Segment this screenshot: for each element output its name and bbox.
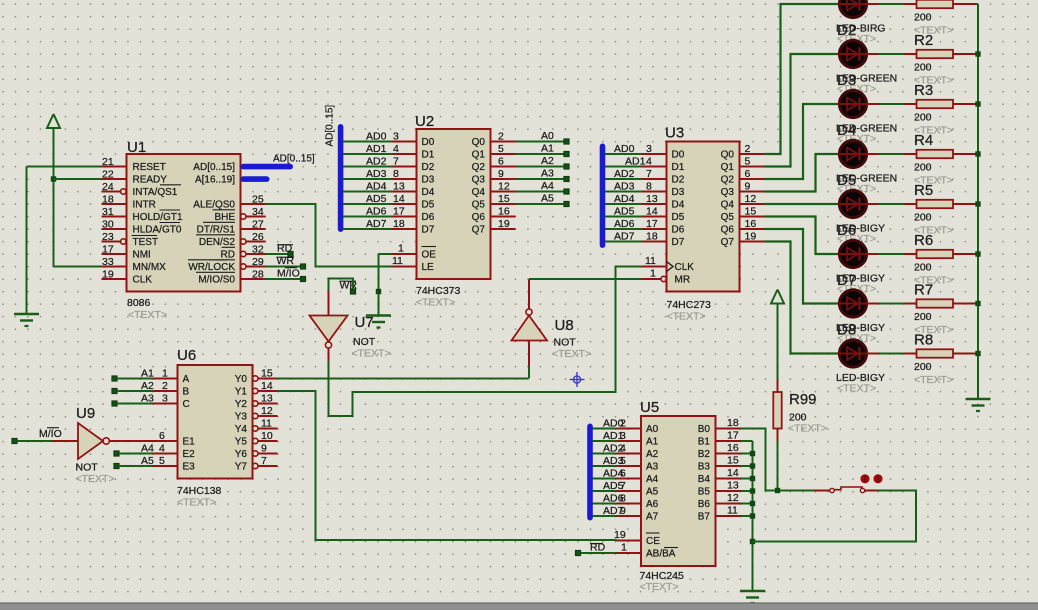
svg-text:19: 19 xyxy=(498,218,510,230)
svg-text:15: 15 xyxy=(261,368,273,380)
svg-text:AD3: AD3 xyxy=(366,168,387,180)
svg-text:74HC373: 74HC373 xyxy=(416,285,461,297)
svg-text:29: 29 xyxy=(252,256,264,268)
svg-text:4: 4 xyxy=(393,143,399,155)
wire resistor to rail row 1 xyxy=(976,3,978,5)
svg-text:19: 19 xyxy=(614,529,626,541)
svg-text:E1: E1 xyxy=(183,437,196,448)
svg-text:2: 2 xyxy=(162,380,168,392)
junction READY xyxy=(51,176,56,181)
wire LED to resistor row 1 xyxy=(879,3,904,5)
svg-text:D5: D5 xyxy=(672,212,685,223)
svg-text:R6: R6 xyxy=(914,232,933,249)
svg-text:AD7: AD7 xyxy=(603,505,624,517)
bottom window edge xyxy=(0,603,1038,610)
wire READY pin 22 xyxy=(54,178,102,180)
IC U1 8086 xyxy=(102,139,266,321)
wire ALE to LE xyxy=(266,204,392,267)
svg-text:9: 9 xyxy=(261,443,267,455)
LED D4 LED-GREEN xyxy=(836,90,897,145)
svg-text:D4: D4 xyxy=(672,200,685,211)
svg-text:Q2: Q2 xyxy=(472,162,486,173)
svg-text:U8: U8 xyxy=(555,317,574,334)
svg-text:U3: U3 xyxy=(665,125,684,142)
svg-text:B5: B5 xyxy=(698,487,711,498)
svg-text:R8: R8 xyxy=(914,332,933,349)
svg-text:A4: A4 xyxy=(646,474,659,485)
svg-text:17: 17 xyxy=(727,430,739,442)
svg-text:1: 1 xyxy=(162,368,168,380)
svg-text:A0: A0 xyxy=(646,424,659,435)
svg-text:16: 16 xyxy=(745,218,757,230)
svg-text:11: 11 xyxy=(727,505,738,517)
svg-text:A5: A5 xyxy=(541,193,554,205)
svg-text:4: 4 xyxy=(159,443,165,455)
svg-text:12: 12 xyxy=(498,181,510,193)
svg-text:A3: A3 xyxy=(141,393,154,405)
resistor R2 200 xyxy=(904,32,976,87)
svg-text:11: 11 xyxy=(645,255,656,267)
svg-text:B2: B2 xyxy=(698,449,711,460)
svg-text:<TEXT>: <TEXT> xyxy=(128,309,167,321)
svg-text:Y6: Y6 xyxy=(235,449,248,460)
svg-text:AD4: AD4 xyxy=(603,468,624,480)
svg-text:Y7: Y7 xyxy=(235,462,248,473)
svg-text:Y5: Y5 xyxy=(235,437,248,448)
ground at U2 OE xyxy=(366,316,391,328)
svg-text:17: 17 xyxy=(102,244,114,256)
wire RD net xyxy=(266,253,289,255)
NOT gate U7 xyxy=(310,291,391,362)
svg-text:M/IO: M/IO xyxy=(39,428,62,440)
svg-text:17: 17 xyxy=(393,206,405,218)
svg-text:AD3: AD3 xyxy=(603,455,624,467)
wires Q0-Q5 to terminals xyxy=(516,142,564,205)
svg-text:AB/BA: AB/BA xyxy=(646,549,676,560)
resistor R5 200 xyxy=(904,182,976,237)
svg-text:D2: D2 xyxy=(422,162,435,173)
svg-text:U7: U7 xyxy=(355,314,374,331)
svg-text:11: 11 xyxy=(261,418,272,430)
wire Y0 to U8 xyxy=(278,378,529,380)
svg-text:13: 13 xyxy=(393,181,405,193)
wire LED to resistor row 7 xyxy=(879,303,904,305)
svg-text:16: 16 xyxy=(727,442,739,454)
svg-text:AD6: AD6 xyxy=(366,206,387,218)
svg-text:C: C xyxy=(183,399,190,410)
svg-text:15: 15 xyxy=(745,206,757,218)
wire right rail xyxy=(977,4,979,399)
svg-text:B: B xyxy=(183,387,190,398)
LED D5 LED-GREEN xyxy=(836,140,897,195)
svg-text:<TEXT>: <TEXT> xyxy=(788,423,827,435)
svg-text:Q1: Q1 xyxy=(472,150,486,161)
svg-text:1: 1 xyxy=(650,268,656,280)
svg-text:M/IO/S0: M/IO/S0 xyxy=(198,275,235,286)
svg-text:11: 11 xyxy=(392,255,403,267)
svg-text:Q0: Q0 xyxy=(721,150,735,161)
svg-text:WR/LOCK: WR/LOCK xyxy=(188,262,235,273)
svg-text:Y2: Y2 xyxy=(235,399,248,410)
svg-text:MN/MX: MN/MX xyxy=(133,262,167,273)
svg-text:14: 14 xyxy=(261,380,273,392)
svg-text:AD5: AD5 xyxy=(366,193,387,205)
wire Q0 to LED row 1 xyxy=(765,4,838,154)
svg-text:3: 3 xyxy=(162,393,168,405)
svg-text:LE: LE xyxy=(422,262,435,273)
svg-text:D3: D3 xyxy=(672,187,685,198)
svg-text:<TEXT>: <TEXT> xyxy=(76,473,115,485)
svg-text:B1: B1 xyxy=(698,437,711,448)
svg-text:Q5: Q5 xyxy=(472,200,486,211)
svg-text:D6: D6 xyxy=(672,225,685,236)
LED D3 LED-GREEN xyxy=(836,40,897,95)
svg-text:INTR: INTR xyxy=(133,200,156,211)
wire Q6 to LED row 7 xyxy=(765,229,838,304)
bus AD[0..15] from U1 xyxy=(241,154,315,170)
svg-text:18: 18 xyxy=(727,417,739,429)
svg-text:Y4: Y4 xyxy=(235,424,248,435)
svg-text:21: 21 xyxy=(102,156,114,168)
terminal RD at U5 xyxy=(575,542,605,556)
wire LED to resistor row 3 xyxy=(879,103,904,105)
svg-text:25: 25 xyxy=(252,194,264,206)
svg-text:OE: OE xyxy=(422,250,437,261)
svg-text:U1: U1 xyxy=(127,139,146,156)
wires bus to U5 A pins xyxy=(593,429,617,517)
svg-text:2: 2 xyxy=(498,131,504,143)
junction OE ground wire xyxy=(376,289,381,294)
svg-text:U5: U5 xyxy=(640,399,659,416)
svg-text:6: 6 xyxy=(745,168,751,180)
svg-text:A4: A4 xyxy=(141,443,154,455)
svg-text:B3: B3 xyxy=(698,462,711,473)
svg-text:12: 12 xyxy=(745,193,757,205)
wire junction to switch xyxy=(780,490,814,492)
svg-text:<TEXT>: <TEXT> xyxy=(837,383,876,395)
wires AD0-AD7 bus to U2 xyxy=(343,142,392,230)
resistor R3 200 xyxy=(904,82,976,137)
terminal M/IO xyxy=(277,268,306,282)
svg-text:R5: R5 xyxy=(914,182,933,199)
svg-text:33: 33 xyxy=(102,256,114,268)
svg-text:Y0: Y0 xyxy=(235,374,248,385)
svg-text:AD[0..15]: AD[0..15] xyxy=(193,162,235,173)
svg-text:8: 8 xyxy=(646,181,652,193)
svg-text:R7: R7 xyxy=(914,282,933,299)
junctions on right rail xyxy=(975,51,980,356)
IC U2 74HC373 xyxy=(392,113,516,309)
svg-text:R4: R4 xyxy=(914,132,933,149)
svg-text:13: 13 xyxy=(261,393,273,405)
ground right rail xyxy=(966,399,991,411)
wire Q5 to LED row 6 xyxy=(765,217,838,255)
wire M/IO net xyxy=(266,278,301,280)
svg-text:3: 3 xyxy=(646,143,652,155)
svg-text:15: 15 xyxy=(727,455,739,467)
svg-text:Q2: Q2 xyxy=(721,175,735,186)
svg-text:Q1: Q1 xyxy=(721,162,735,173)
svg-text:AD2: AD2 xyxy=(603,443,624,455)
svg-text:14: 14 xyxy=(727,467,739,479)
svg-text:<TEXT>: <TEXT> xyxy=(352,348,391,360)
svg-text:15: 15 xyxy=(498,193,510,205)
svg-text:ALE/QS0: ALE/QS0 xyxy=(193,200,235,211)
junction switch return xyxy=(750,539,755,544)
svg-text:A5: A5 xyxy=(646,487,659,498)
svg-text:D6: D6 xyxy=(422,212,435,223)
svg-text:READY: READY xyxy=(133,175,168,186)
svg-text:200: 200 xyxy=(914,62,932,74)
svg-text:19: 19 xyxy=(102,269,114,281)
svg-text:18: 18 xyxy=(393,218,405,230)
svg-text:A4: A4 xyxy=(541,180,554,192)
svg-text:B4: B4 xyxy=(698,474,711,485)
wire Q7 to LED row 8 xyxy=(765,242,838,354)
LED D6 LED-BIGY xyxy=(836,190,885,245)
svg-text:Q7: Q7 xyxy=(472,225,486,236)
svg-text:AD4: AD4 xyxy=(614,193,635,205)
svg-text:U6: U6 xyxy=(177,347,196,364)
svg-text:14: 14 xyxy=(646,206,658,218)
svg-text:Q5: Q5 xyxy=(721,212,735,223)
svg-text:A1: A1 xyxy=(541,143,554,155)
svg-text:D5: D5 xyxy=(422,200,435,211)
svg-text:24: 24 xyxy=(102,181,114,193)
LED D7 LED-BIGY xyxy=(836,240,885,295)
svg-text:5: 5 xyxy=(159,455,165,467)
svg-text:74HC138: 74HC138 xyxy=(177,485,222,497)
svg-text:AD6: AD6 xyxy=(614,218,635,230)
svg-text:6: 6 xyxy=(498,156,504,168)
svg-text:7: 7 xyxy=(646,168,652,180)
svg-text:NOT: NOT xyxy=(554,337,577,349)
resistor R8 200 xyxy=(904,332,976,387)
svg-text:34: 34 xyxy=(252,206,264,218)
svg-text:A2: A2 xyxy=(541,155,554,167)
svg-text:AD0: AD0 xyxy=(603,418,624,430)
svg-text:A7: A7 xyxy=(646,512,659,523)
svg-text:HOLD/GT1: HOLD/GT1 xyxy=(133,212,183,223)
svg-text:D1: D1 xyxy=(422,150,435,161)
svg-text:A3: A3 xyxy=(541,168,554,180)
svg-text:AD0: AD0 xyxy=(614,143,635,155)
resistor R7 200 xyxy=(904,282,976,337)
svg-text:D0: D0 xyxy=(422,137,435,148)
svg-text:74HC273: 74HC273 xyxy=(667,299,712,311)
svg-text:E3: E3 xyxy=(183,462,196,473)
svg-text:CE: CE xyxy=(646,536,660,547)
bus A[16..19] from U1 xyxy=(241,176,270,182)
svg-text:A2: A2 xyxy=(646,449,659,460)
wire resistor to rail row 7 xyxy=(976,303,978,305)
svg-text:AD6: AD6 xyxy=(603,493,624,505)
svg-text:30: 30 xyxy=(102,219,114,231)
resistor R4 200 xyxy=(904,132,976,187)
svg-text:AD2: AD2 xyxy=(614,168,635,180)
wire B1 down rail xyxy=(741,441,753,591)
wire resistor to rail row 2 xyxy=(976,53,978,55)
wire RD to AB/BA xyxy=(581,552,617,554)
svg-text:3: 3 xyxy=(393,131,399,143)
svg-text:RESET: RESET xyxy=(133,162,166,173)
svg-text:R99: R99 xyxy=(789,391,817,408)
ground below U5 xyxy=(740,591,765,603)
svg-text:200: 200 xyxy=(914,162,932,174)
wire Y1 to U5 CE xyxy=(278,391,617,540)
wires B2-B7 to rail xyxy=(741,451,756,519)
bus AD[0..7] vertical at U5 xyxy=(587,424,593,521)
wire resistor to rail row 4 xyxy=(976,153,978,155)
svg-text:23: 23 xyxy=(102,231,114,243)
NOT gate U9 xyxy=(53,405,153,485)
svg-text:A1: A1 xyxy=(141,368,154,380)
power arrow VCC left xyxy=(47,114,60,267)
IC U3 74HC273 xyxy=(642,125,765,323)
svg-text:200: 200 xyxy=(914,212,932,224)
svg-text:AD1: AD1 xyxy=(366,143,387,155)
svg-text:7: 7 xyxy=(393,156,399,168)
svg-text:<TEXT>: <TEXT> xyxy=(416,297,455,309)
svg-text:D3: D3 xyxy=(422,175,435,186)
NOT gate U8 xyxy=(512,279,592,366)
svg-text:AD5: AD5 xyxy=(614,206,635,218)
wire LED to resistor row 6 xyxy=(879,253,904,255)
svg-text:AD5: AD5 xyxy=(603,480,624,492)
wire resistor to rail row 8 xyxy=(976,353,978,355)
wire VCC to MN/MX pin 33 xyxy=(54,266,102,268)
svg-text:Q4: Q4 xyxy=(721,200,735,211)
svg-text:DT/R/S1: DT/R/S1 xyxy=(197,225,236,236)
svg-text:TEST: TEST xyxy=(133,237,159,248)
svg-text:B6: B6 xyxy=(698,499,711,510)
svg-text:D7: D7 xyxy=(672,237,685,248)
svg-text:200: 200 xyxy=(914,361,932,373)
svg-text:18: 18 xyxy=(646,231,658,243)
svg-text:D7: D7 xyxy=(422,225,435,236)
wire B0 to R99 bottom xyxy=(741,429,776,491)
svg-text:A1: A1 xyxy=(646,437,659,448)
svg-text:6: 6 xyxy=(159,430,165,442)
svg-text:5: 5 xyxy=(745,156,751,168)
svg-text:32: 32 xyxy=(252,244,264,256)
svg-text:E2: E2 xyxy=(183,449,196,460)
svg-text:26: 26 xyxy=(252,231,264,243)
svg-text:Q3: Q3 xyxy=(721,187,735,198)
IC U6 74HC138 xyxy=(153,347,278,509)
svg-text:AD0: AD0 xyxy=(366,131,387,143)
svg-text:INTA/QS1: INTA/QS1 xyxy=(133,187,178,198)
svg-text:Q7: Q7 xyxy=(721,237,735,248)
svg-text:A[16..19]: A[16..19] xyxy=(195,175,235,186)
svg-text:8: 8 xyxy=(393,168,399,180)
LED D8 LED-BIGY xyxy=(836,290,885,345)
svg-text:1: 1 xyxy=(398,243,404,255)
svg-text:17: 17 xyxy=(646,218,658,230)
svg-text:10: 10 xyxy=(261,430,273,442)
svg-text:AD2: AD2 xyxy=(366,156,387,168)
svg-text:RD: RD xyxy=(221,250,235,261)
svg-text:Q4: Q4 xyxy=(472,187,486,198)
svg-text:AD7: AD7 xyxy=(366,218,387,230)
wire LED to resistor row 5 xyxy=(879,203,904,205)
junction R99 bottom xyxy=(775,488,780,493)
svg-text:A0: A0 xyxy=(541,130,554,142)
svg-text:1: 1 xyxy=(621,542,627,554)
svg-text:19: 19 xyxy=(745,231,757,243)
svg-text:AD1: AD1 xyxy=(603,430,624,442)
svg-text:18: 18 xyxy=(102,194,114,206)
svg-text:<TEXT>: <TEXT> xyxy=(177,497,216,509)
wire LED to resistor row 8 xyxy=(879,353,904,355)
svg-text:200: 200 xyxy=(914,112,932,124)
wire U8 output to U3 MR xyxy=(529,278,642,280)
bus AD[0..15] vertical at U2 xyxy=(325,105,344,232)
svg-text:R2: R2 xyxy=(914,32,933,49)
svg-text:AD[0..15]: AD[0..15] xyxy=(325,105,336,147)
wire WR net xyxy=(266,266,301,268)
net labels AD0-AD7 at U2 xyxy=(366,131,387,231)
ground left xyxy=(14,314,39,326)
wire WR terminal to U7 input xyxy=(329,279,354,291)
resistor R6 200 xyxy=(904,232,976,287)
svg-text:AD1: AD1 xyxy=(625,156,646,168)
wire RESET pin 21 xyxy=(27,167,102,315)
IC U5 74HC245 xyxy=(614,399,741,593)
svg-text:BHE: BHE xyxy=(214,212,235,223)
svg-text:200: 200 xyxy=(914,262,932,274)
svg-text:A3: A3 xyxy=(646,462,659,473)
svg-text:CLK: CLK xyxy=(675,262,695,273)
svg-text:D4: D4 xyxy=(422,187,435,198)
wire LED to resistor row 4 xyxy=(879,153,904,155)
svg-text:4: 4 xyxy=(646,156,652,168)
svg-text:Q3: Q3 xyxy=(472,175,486,186)
svg-text:D2: D2 xyxy=(672,175,685,186)
svg-text:A6: A6 xyxy=(646,499,659,510)
svg-text:<TEXT>: <TEXT> xyxy=(640,581,679,593)
wire R99 to junction xyxy=(777,441,779,491)
svg-text:8086: 8086 xyxy=(127,297,151,309)
svg-text:A: A xyxy=(183,374,190,385)
svg-text:200: 200 xyxy=(914,12,932,24)
wire Y0 to U8 input xyxy=(528,366,530,379)
svg-text:Y1: Y1 xyxy=(235,387,248,398)
svg-text:U2: U2 xyxy=(415,113,434,130)
wire OE to ground xyxy=(379,254,392,316)
terminal WR xyxy=(277,255,306,269)
svg-text:AD[0..15]: AD[0..15] xyxy=(273,154,315,165)
svg-text:CLK: CLK xyxy=(133,275,153,286)
svg-text:D1: D1 xyxy=(672,162,685,173)
bus AD[0..7] vertical at U3 xyxy=(600,144,606,249)
svg-text:M/IO: M/IO xyxy=(277,268,300,280)
svg-text:NOT: NOT xyxy=(76,462,99,474)
wire resistor to rail row 3 xyxy=(976,103,978,105)
LED D9 LED-BIGY xyxy=(836,340,885,395)
svg-text:2: 2 xyxy=(745,143,751,155)
svg-text:U9: U9 xyxy=(76,405,95,422)
resistor R1 200 xyxy=(904,0,976,37)
svg-text:B7: B7 xyxy=(698,512,711,523)
wire switch return xyxy=(753,491,917,542)
wire resistor to rail row 5 xyxy=(976,203,978,205)
wires bus to U3 D pins xyxy=(605,154,642,242)
svg-text:AD7: AD7 xyxy=(614,231,635,243)
svg-text:Q6: Q6 xyxy=(472,212,486,223)
terminal WR at U7 xyxy=(340,280,358,295)
origin marker xyxy=(570,372,585,387)
